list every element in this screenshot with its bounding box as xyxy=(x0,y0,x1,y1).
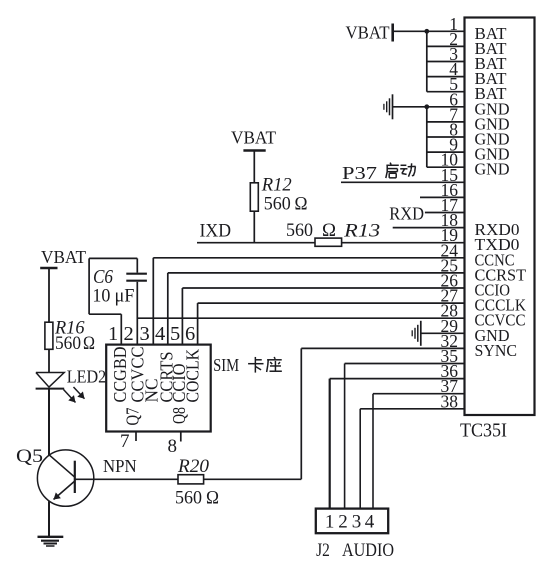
svg-text:IXD: IXD xyxy=(200,220,232,241)
svg-text:Ω: Ω xyxy=(206,488,219,509)
svg-text:4: 4 xyxy=(155,323,165,345)
svg-text:1: 1 xyxy=(108,323,118,345)
svg-text:560: 560 xyxy=(55,333,81,354)
svg-text:Q7: Q7 xyxy=(123,407,143,425)
svg-text:R12: R12 xyxy=(261,175,292,196)
svg-text:SIM: SIM xyxy=(213,355,239,375)
svg-text:COCLK: COCLK xyxy=(183,349,203,403)
svg-text:560: 560 xyxy=(175,488,202,509)
svg-text:μF: μF xyxy=(115,286,135,307)
svg-text:560: 560 xyxy=(286,220,313,241)
svg-text:SYNC: SYNC xyxy=(475,341,518,360)
svg-text:2: 2 xyxy=(124,323,134,345)
svg-text:VBAT: VBAT xyxy=(231,128,276,148)
svg-text:VBAT: VBAT xyxy=(41,247,86,267)
svg-text:7: 7 xyxy=(120,431,130,452)
svg-text:VBAT: VBAT xyxy=(346,23,390,43)
svg-text:5: 5 xyxy=(170,323,180,345)
svg-text:8: 8 xyxy=(168,436,178,457)
svg-text:10: 10 xyxy=(92,286,110,307)
svg-text:RXD: RXD xyxy=(389,204,424,224)
svg-text:3: 3 xyxy=(140,323,150,345)
svg-text:1: 1 xyxy=(325,512,335,533)
svg-text:LED2: LED2 xyxy=(67,367,106,387)
svg-text:J2: J2 xyxy=(316,540,330,561)
svg-text:GND: GND xyxy=(475,160,510,179)
svg-text:R13: R13 xyxy=(343,220,380,241)
svg-text:4: 4 xyxy=(365,512,375,533)
svg-text:AUDIO: AUDIO xyxy=(342,540,394,561)
svg-text:Q8: Q8 xyxy=(169,407,189,424)
svg-text:3: 3 xyxy=(352,512,362,533)
svg-text:Q5: Q5 xyxy=(16,446,43,467)
svg-text:560: 560 xyxy=(264,194,291,215)
svg-text:Ω: Ω xyxy=(322,220,336,241)
svg-text:Ω: Ω xyxy=(295,194,308,215)
svg-text:6: 6 xyxy=(185,323,195,345)
svg-text:R20: R20 xyxy=(177,456,210,477)
svg-text:38: 38 xyxy=(441,391,459,411)
svg-text:2: 2 xyxy=(338,512,348,533)
svg-text:NPN: NPN xyxy=(103,456,137,476)
svg-text:Ω: Ω xyxy=(83,333,95,354)
svg-text:P37: P37 xyxy=(342,163,377,183)
svg-text:TC35I: TC35I xyxy=(460,421,507,442)
